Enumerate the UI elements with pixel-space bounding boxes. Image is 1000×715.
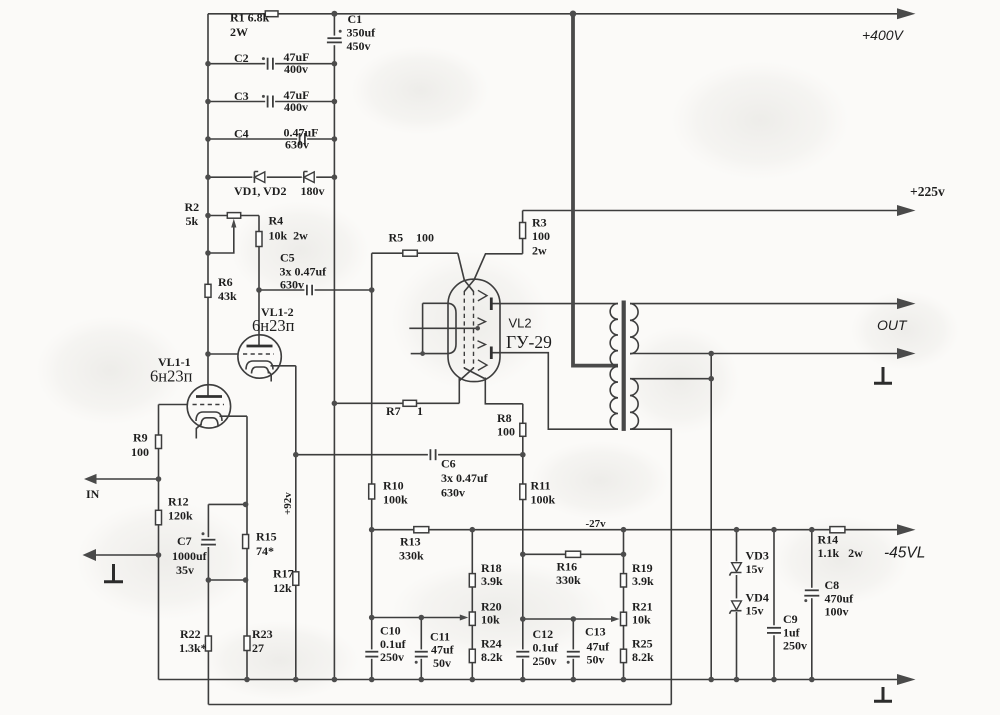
svg-text:R12: R12 [168, 495, 189, 509]
resistor R1 [265, 11, 278, 17]
svg-text:0.1uf: 0.1uf [380, 637, 407, 651]
svg-text:R13: R13 [400, 535, 421, 549]
svg-text:R10: R10 [383, 479, 404, 493]
transformer T1 [610, 301, 638, 431]
svg-text:3.9k: 3.9k [481, 574, 503, 588]
svg-text:330k: 330k [556, 573, 581, 587]
svg-text:8.2k: 8.2k [481, 650, 503, 664]
svg-text:74*: 74* [256, 544, 274, 558]
svg-text:43k: 43k [218, 289, 237, 303]
wire C6 row [296, 454, 523, 456]
tube VL2 beam plate chevron top [478, 290, 487, 301]
svg-text:C2: C2 [234, 51, 249, 65]
svg-text:R18: R18 [481, 561, 502, 575]
wire thick B+ feed to primary center tap [573, 12, 618, 366]
tube VL2 cathode junction dot [475, 326, 480, 331]
svg-text:R24: R24 [481, 637, 502, 651]
svg-text:1000uf: 1000uf [172, 549, 208, 563]
svg-text:R2: R2 [185, 200, 200, 214]
node C7 top junction [243, 502, 249, 508]
resistor R3 [520, 223, 526, 239]
capacitor C4 [297, 132, 307, 146]
tube VL2 grid1 dashed [463, 291, 465, 369]
tube VL1-1 cathode [196, 412, 222, 421]
svg-text:250v: 250v [533, 654, 557, 668]
transformer secondary bottom winding [630, 379, 638, 430]
svg-text:R1 6.8k: R1 6.8k [230, 11, 270, 25]
wire VL1-2 grid tap row [208, 353, 239, 355]
wire C7 R22 chain vertical [207, 504, 209, 704]
tube VL1-2 heater stub [269, 372, 272, 382]
node IN arrow [84, 474, 97, 484]
svg-text:C3: C3 [234, 89, 249, 103]
svg-text:3x 0.47uf: 3x 0.47uf [280, 265, 328, 279]
tube VL2 heater line [409, 327, 479, 329]
wire OUT return lead [630, 353, 899, 355]
svg-text:R25: R25 [632, 637, 653, 651]
diode VD3 zener [730, 561, 744, 575]
tube VL2 grid2 dashed [473, 291, 475, 369]
wire VD3 VD4 vertical [736, 530, 738, 680]
capacitor C7 electrolytic [201, 532, 216, 547]
wire VL1-1 cathode lead [220, 415, 248, 417]
svg-text:C13: C13 [585, 625, 606, 639]
tube VL2 beam plate chevron bottom [478, 360, 487, 371]
resistor R17 [293, 572, 299, 586]
tube VL1-2 grid dashed [243, 353, 274, 355]
svg-text:180v: 180v [301, 184, 325, 198]
tube VL1-2 heater [252, 367, 269, 374]
svg-text:R11: R11 [531, 479, 551, 493]
wire left vertical bus (anode VL1-1 chain) [207, 14, 209, 397]
node -45VL arrow [897, 524, 916, 535]
svg-text:12k: 12k [273, 581, 292, 595]
svg-text:R20: R20 [481, 600, 502, 614]
resistor R18 [469, 574, 475, 587]
node secondary junctions [708, 351, 714, 357]
wire VL2 bottom-right pin to R8 [485, 378, 523, 404]
capacitor C9 [767, 625, 781, 635]
node C3 row junctions [205, 99, 211, 105]
node VL1-2 grid tap junction [205, 351, 211, 357]
wire outer bottom return [208, 704, 671, 706]
capacitor C5 [304, 284, 314, 297]
svg-text:R7: R7 [386, 404, 401, 418]
svg-text:5k: 5k [186, 214, 199, 228]
wire bottom ground rail [159, 679, 900, 681]
svg-text:450v: 450v [347, 39, 371, 53]
node R16 junctions [520, 552, 526, 558]
svg-text:R15: R15 [256, 530, 277, 544]
node C7 bottom junctions [206, 577, 212, 583]
svg-text:C5: C5 [280, 251, 295, 265]
wire R7 row [334, 402, 459, 404]
svg-text:47uf: 47uf [587, 640, 611, 654]
resistor R4 [256, 232, 262, 247]
resistor R15 [243, 535, 249, 549]
resistor R19 [621, 574, 627, 587]
svg-text:R6: R6 [218, 275, 233, 289]
svg-text:-45VL: -45VL [884, 545, 925, 562]
node C12 row junctions [520, 616, 526, 622]
svg-text:R16: R16 [557, 560, 578, 574]
wire ground row left [95, 554, 159, 556]
node C4 row junctions [205, 136, 211, 142]
svg-text:+225v: +225v [910, 184, 945, 199]
svg-text:8.2k: 8.2k [632, 650, 654, 664]
wire VL1-1 grid lead [159, 404, 188, 406]
wire OUT secondary top lead [630, 303, 899, 305]
wire VL2 bottom-left pin to R7 row [458, 377, 460, 403]
tube VL2 cathode chevron upper [478, 318, 486, 326]
wire C9 vertical [773, 530, 775, 680]
wire R2 potentiometer row [208, 215, 259, 217]
wire +225v rail [523, 210, 899, 212]
wire secondary bottom lead [630, 429, 671, 704]
wire C8 vertical [811, 530, 813, 680]
svg-text:630v: 630v [285, 137, 309, 151]
svg-text:C11: C11 [430, 630, 450, 644]
resistor R10 [369, 484, 375, 499]
svg-text:R4: R4 [269, 214, 284, 228]
svg-text:120k: 120k [168, 509, 193, 523]
resistor R16 [566, 551, 581, 557]
capacitor C2 [262, 57, 275, 71]
svg-text:VL2: VL2 [509, 316, 532, 331]
svg-text:35v: 35v [176, 563, 194, 577]
svg-text:R14: R14 [818, 533, 839, 547]
wire VL2 anode top to transformer primary [491, 303, 618, 305]
svg-text:15v: 15v [746, 562, 764, 576]
wire C13 vertical [572, 619, 574, 680]
ground symbol bottom right [874, 687, 892, 701]
node R7 junction [332, 401, 338, 407]
tube VL2 grid crossing top [464, 280, 474, 292]
tube VL2 beam stub lead [411, 353, 423, 355]
svg-text:ГУ-29: ГУ-29 [506, 332, 552, 352]
resistor R25 [621, 649, 627, 662]
svg-text:1.1k 2w: 1.1k 2w [818, 546, 864, 560]
tube VL2 grid crossing bottom [460, 368, 474, 381]
node ground rail arrow [897, 674, 916, 685]
tube VL2 cathode chevron lower [478, 341, 486, 348]
svg-text:C6: C6 [441, 457, 456, 471]
tube VL2 envelope [448, 279, 500, 381]
svg-text:R21: R21 [632, 600, 653, 614]
svg-text:VD1, VD2: VD1, VD2 [234, 184, 286, 198]
svg-text:250v: 250v [783, 639, 807, 653]
svg-text:3x 0.47uf: 3x 0.47uf [441, 471, 489, 485]
svg-text:630v: 630v [280, 278, 304, 292]
svg-text:630v: 630v [441, 486, 465, 500]
wire C7 bottom link [208, 579, 245, 581]
tube VL1-2 triode [238, 335, 281, 382]
svg-text:6н23п: 6н23п [150, 367, 193, 386]
svg-text:1: 1 [417, 404, 423, 418]
ground symbol mid right [874, 367, 892, 383]
tube VL2 anode bottom bar [490, 347, 493, 360]
wire R8 / R11 vertical chain [522, 404, 524, 680]
tube VL1-1 heater [201, 418, 218, 426]
wire R5 row [372, 252, 458, 254]
resistor R11 [520, 484, 526, 500]
node OUT return arrow [897, 348, 916, 359]
node ground arrow left [83, 549, 97, 561]
svg-text:10k 2w: 10k 2w [269, 229, 309, 243]
tube VL2 beam stub junction dot [420, 351, 425, 356]
resistor R24 [469, 649, 475, 662]
node +225v arrow [897, 205, 916, 216]
svg-text:100: 100 [131, 445, 149, 459]
wire -27v / -45VL rail [372, 529, 899, 531]
svg-text:3.9k: 3.9k [632, 574, 654, 588]
svg-text:2w: 2w [532, 244, 547, 258]
wire secondary lower section top lead [630, 378, 711, 380]
wire long vertical bus from C1 to bottom rail [333, 14, 335, 680]
svg-text:2W: 2W [230, 25, 248, 39]
resistor R6 [205, 284, 211, 297]
svg-text:C1: C1 [348, 12, 363, 26]
svg-text:C7: C7 [177, 534, 192, 548]
node bottom rail junctions [244, 677, 250, 683]
node gnd-left junction [156, 552, 162, 558]
capacitor C3 [262, 94, 275, 108]
capacitor C11 electrolytic [415, 649, 428, 663]
wire C7 top link [208, 503, 245, 505]
svg-text:C10: C10 [380, 624, 401, 638]
diode VD2 zener [302, 171, 316, 184]
resistor R8 [520, 423, 526, 436]
svg-text:R8: R8 [497, 411, 512, 425]
wire R4 vertical / VL1-2 anode [258, 216, 260, 347]
capacitor C13 electrolytic [567, 649, 580, 663]
capacitor C8 electrolytic [804, 588, 819, 602]
resistor R13 [414, 527, 429, 533]
wire C4 row [208, 138, 334, 140]
wire R2 wiper stem [208, 223, 234, 254]
wire VL2 grid bus vertical [371, 253, 373, 679]
tube VL1-1 anode bar [196, 395, 222, 398]
svg-text:C12: C12 [533, 627, 554, 641]
svg-text:100k: 100k [383, 493, 408, 507]
svg-text:OUT: OUT [877, 317, 908, 333]
tube VL2 beam electrode bracket [423, 303, 456, 353]
node IN junction [156, 476, 162, 482]
svg-text:400v: 400v [284, 100, 308, 114]
diode VD1 zener [252, 171, 266, 184]
wire +92v cathode bus vertical (R17 chain) [295, 366, 297, 680]
svg-text:100v: 100v [825, 605, 849, 619]
svg-text:100k: 100k [531, 493, 556, 507]
svg-text:6н23п: 6н23п [252, 316, 295, 335]
svg-text:50v: 50v [587, 653, 605, 667]
tube VL2 beam electrode left vertical [422, 303, 424, 353]
wire R15 R23 chain vertical [246, 416, 248, 679]
wire C11 vertical [420, 618, 422, 680]
wire C12 C13 row with wiper to R21 [523, 618, 616, 620]
resistor R14 [830, 527, 845, 533]
svg-text:47uf: 47uf [431, 643, 455, 657]
svg-text:1.3k*: 1.3k* [179, 641, 207, 655]
tube VL1-2 cathode [246, 361, 273, 370]
node OUT arrow [897, 298, 916, 309]
wire C3 row [208, 101, 334, 103]
svg-text:10k: 10k [632, 613, 651, 627]
svg-text:VD3: VD3 [746, 549, 769, 563]
wire R9 R12 input chain vertical [158, 405, 160, 680]
svg-text:330k: 330k [399, 549, 424, 563]
diode VD4 zener [730, 598, 744, 613]
node top rail junctions [331, 11, 337, 17]
wire R3 vertical stub [522, 211, 524, 254]
svg-text:100: 100 [497, 425, 515, 439]
svg-text:R3: R3 [532, 216, 547, 230]
svg-text:1uf: 1uf [783, 626, 801, 640]
capacitor C6 [428, 448, 438, 461]
resistor R9 [156, 435, 162, 449]
tube VL1-1 triode [187, 385, 230, 439]
ground symbol left [104, 564, 123, 582]
svg-text:+400V: +400V [862, 27, 905, 43]
wire R18 R20 R24 chain vertical [471, 530, 473, 680]
svg-text:R9: R9 [133, 431, 148, 445]
wire C10 C11 row with wiper to R20 [372, 617, 465, 619]
transformer core [622, 301, 626, 431]
wire VL2 grid1 top pin [458, 253, 465, 280]
node +400V arrow [897, 8, 916, 19]
svg-text:C9: C9 [783, 612, 798, 626]
wire +400V top rail [208, 13, 899, 15]
wire VL1-2 cathode lead to +92v bus [271, 365, 296, 367]
wire IN row [95, 478, 159, 480]
tube VL1-1 heater stub [196, 424, 201, 439]
svg-text:C4: C4 [234, 126, 249, 140]
node C2 row junctions [205, 61, 211, 67]
svg-text:R22: R22 [180, 627, 201, 641]
wire R3 bottom to screen grid pin [474, 254, 523, 280]
wire C5 row [259, 289, 372, 291]
transformer secondary top winding [630, 304, 638, 354]
svg-text:400v: 400v [284, 62, 308, 76]
capacitor C12 [516, 649, 529, 658]
svg-text:470uf: 470uf [825, 592, 855, 606]
potentiometer R20 [460, 612, 476, 625]
potentiometer R2 [227, 213, 240, 228]
resistor R5 [403, 250, 418, 256]
potentiometer R21 [611, 612, 627, 625]
svg-text:R19: R19 [632, 561, 653, 575]
svg-text:27: 27 [252, 641, 264, 655]
resistor R22 [205, 636, 211, 651]
tube VL2 anode top bar [490, 298, 493, 311]
svg-text:VD4: VD4 [746, 591, 769, 605]
wire VD1 VD2 row [208, 176, 334, 178]
resistor R23 [244, 636, 250, 651]
svg-text:0.1uf: 0.1uf [533, 641, 560, 655]
node wiper junction [205, 250, 211, 256]
svg-text:100: 100 [532, 229, 550, 243]
node R2 row junction [205, 213, 211, 219]
tube VL1-2 envelope [238, 335, 281, 378]
node C6 junctions [293, 452, 299, 458]
node -27v rail junctions [369, 527, 375, 533]
svg-text:15v: 15v [746, 604, 764, 618]
wire VL2 anode bottom to transformer primary bottom [491, 353, 618, 430]
svg-text:50v: 50v [433, 656, 451, 670]
capacitor C1 [327, 30, 342, 45]
svg-text:R17: R17 [273, 567, 294, 581]
tube VL1-2 anode bar [247, 345, 273, 348]
wire R16 row [523, 553, 624, 555]
svg-text:100: 100 [416, 231, 434, 245]
resistor R7 [403, 400, 417, 406]
wire secondary junction vertical [710, 354, 712, 680]
svg-text:IN: IN [86, 487, 100, 501]
resistor R12 [156, 510, 162, 525]
node VD row junctions [205, 174, 211, 180]
svg-text:-27v: -27v [586, 518, 607, 530]
tube VL1-1 envelope [187, 385, 230, 428]
svg-text:R23: R23 [252, 627, 273, 641]
wire R19 R21 R25 chain vertical [623, 530, 625, 680]
svg-text:350uf: 350uf [347, 26, 377, 40]
svg-text:250v: 250v [380, 650, 404, 664]
op-amp none : vacuum tube VL2 GU-29 [409, 279, 500, 382]
wire C2 row [208, 63, 334, 65]
transformer primary winding [610, 304, 618, 430]
node R18 chain junction [470, 527, 476, 533]
capacitor C10 [365, 649, 378, 658]
node C10 row junctions [369, 615, 375, 621]
node C5 junctions [256, 287, 262, 293]
tube VL1-1 grid dashed [193, 404, 225, 406]
svg-text:+92v: +92v [282, 492, 294, 515]
svg-text:10k: 10k [481, 613, 500, 627]
svg-text:C8: C8 [825, 578, 840, 592]
svg-text:R5: R5 [389, 231, 404, 245]
